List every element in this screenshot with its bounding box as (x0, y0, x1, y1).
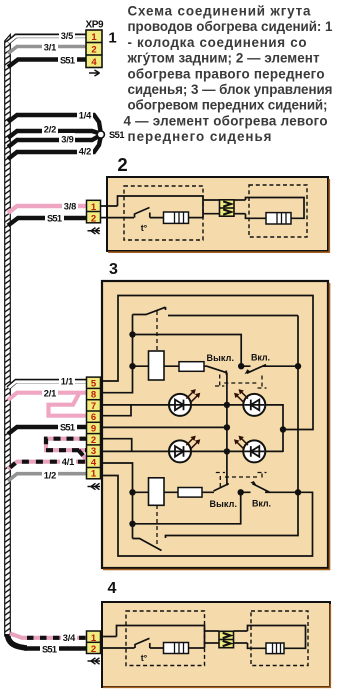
svg-text:6: 6 (91, 412, 96, 423)
svg-text:9: 9 (91, 424, 96, 435)
svg-text:1/2: 1/2 (44, 470, 57, 480)
svg-text:переднего сиденья: переднего сиденья (128, 129, 272, 144)
svg-text:2: 2 (91, 213, 96, 224)
svg-text:4: 4 (108, 580, 117, 597)
svg-text:3/9: 3/9 (61, 135, 74, 145)
svg-text:S51: S51 (109, 130, 125, 140)
svg-text:8: 8 (91, 390, 96, 401)
svg-text:обогрева правого переднего: обогрева правого переднего (128, 66, 325, 81)
svg-text:S51: S51 (60, 55, 75, 65)
svg-text:2/1: 2/1 (44, 388, 57, 398)
svg-text:3/8: 3/8 (64, 202, 77, 212)
svg-text:2: 2 (91, 435, 96, 446)
svg-text:3: 3 (91, 446, 96, 457)
svg-text:Вкл.: Вкл. (251, 353, 270, 363)
svg-text:Выкл.: Выкл. (210, 499, 238, 509)
svg-text:3/4: 3/4 (63, 633, 76, 643)
svg-text:S51: S51 (47, 214, 62, 224)
svg-text:5: 5 (91, 378, 97, 389)
svg-text:1/1: 1/1 (61, 376, 74, 386)
svg-text:S51: S51 (60, 422, 75, 432)
svg-text:7: 7 (91, 401, 96, 412)
svg-text:4/1: 4/1 (62, 457, 75, 467)
svg-text:1: 1 (108, 30, 116, 47)
svg-text:2: 2 (117, 154, 127, 175)
svg-text:1: 1 (91, 202, 97, 213)
svg-text:1/4: 1/4 (79, 111, 92, 121)
svg-text:Выкл.: Выкл. (207, 353, 235, 363)
svg-text:жгу́том задним; 2 — элемент: жгу́том задним; 2 — элемент (127, 51, 320, 66)
svg-text:Вкл.: Вкл. (252, 499, 271, 509)
svg-text:1: 1 (91, 633, 97, 644)
svg-text:1: 1 (91, 32, 97, 43)
svg-text:1: 1 (91, 469, 97, 480)
svg-text:4/2: 4/2 (79, 147, 92, 157)
svg-text:t°: t° (141, 653, 148, 663)
svg-text:3: 3 (109, 261, 118, 278)
svg-text:4: 4 (91, 457, 97, 468)
svg-text:4 — элемент обогрева левого: 4 — элемент обогрева левого (124, 113, 328, 128)
svg-text:t°: t° (141, 223, 148, 233)
svg-text:обогревом передних сидений;: обогревом передних сидений; (128, 98, 328, 113)
svg-text:- колодка соединения со: - колодка соединения со (128, 35, 307, 50)
svg-text:Схема соединений жгута: Схема соединений жгута (128, 4, 312, 19)
svg-text:2/2: 2/2 (44, 125, 57, 135)
svg-text:4: 4 (91, 57, 97, 68)
svg-text:3/1: 3/1 (44, 42, 57, 52)
svg-text:S51: S51 (42, 644, 57, 654)
svg-text:2: 2 (91, 45, 96, 56)
svg-text:XP9: XP9 (86, 20, 104, 31)
svg-text:сиденья; 3 — блок управления: сиденья; 3 — блок управления (128, 82, 333, 97)
svg-text:проводов обогрева сидений: 1: проводов обогрева сидений: 1 (128, 19, 334, 34)
svg-text:2: 2 (91, 644, 96, 655)
svg-text:3/5: 3/5 (61, 31, 74, 41)
